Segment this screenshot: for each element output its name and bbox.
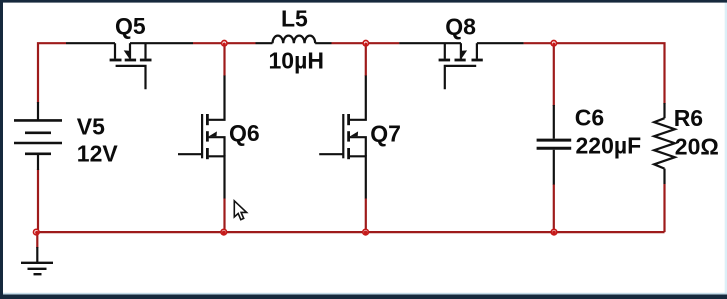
battery V5: [14, 102, 62, 170]
wire: Q8 source to node C: [524, 42, 554, 44]
svg-text:L5: L5: [281, 5, 308, 31]
wire: L5 right lead to node B: [332, 42, 366, 44]
transistor Q8 (horizontal NMOS, mirrored: source+bulk left / drain right): [399, 43, 523, 89]
wire: node A down to Q6 drain: [223, 43, 225, 76]
mouse cursor: [234, 201, 246, 220]
wire: node A to L5 left lead: [224, 42, 255, 44]
node F (C6 bottom junction): [551, 229, 557, 235]
wire: node C across top to R6: [554, 43, 665, 104]
node C (Q8/C6/R6 junction): [551, 41, 556, 46]
wire: V5 positive up and across to Q5 drain: [38, 43, 66, 103]
svg-text:20Ω: 20Ω: [675, 133, 719, 159]
wire: Q5 source to node A: [193, 42, 224, 44]
node G (battery/ground junction): [34, 229, 40, 235]
wire: bottom rail from ground node G to bottom-right corner: [38, 231, 665, 233]
wire: Q7 source down to node E: [365, 198, 367, 232]
svg-text:Q7: Q7: [370, 120, 401, 146]
transistor Q6 (vertical NMOS): [178, 76, 225, 199]
wire: Q6 source down to node D: [223, 198, 225, 232]
transistor Q7 (vertical NMOS): [319, 76, 366, 199]
svg-text:12V: 12V: [77, 141, 119, 167]
svg-text:V5: V5: [77, 113, 105, 139]
wire: C6 bottom down to node F: [553, 184, 555, 232]
wire: node C down to C6 top: [553, 43, 555, 106]
window frame border (decorative): [725, 0, 727, 299]
node B (L5/Q7/Q8 junction): [363, 41, 368, 46]
wire: R6 bottom to bottom-right corner: [663, 184, 665, 232]
wire: V5 negative down to node G: [37, 169, 39, 232]
wire: node G down to ground symbol: [36, 232, 38, 248]
ground: [21, 247, 53, 274]
inductor L5: [256, 36, 332, 44]
wire: node B to Q8 drain: [366, 42, 399, 44]
resistor R6: [654, 103, 675, 184]
svg-text:C6: C6: [575, 105, 604, 131]
svg-text:220µF: 220µF: [576, 132, 642, 158]
node D (Q6 bottom junction): [221, 229, 227, 235]
node E (Q7 bottom junction): [363, 229, 369, 235]
node A (Q5/Q6/L5 junction): [222, 41, 227, 46]
capacitor C6: [537, 105, 572, 185]
svg-text:Q6: Q6: [229, 120, 260, 146]
svg-text:10µH: 10µH: [269, 48, 324, 74]
svg-text:R6: R6: [674, 105, 703, 131]
svg-text:Q8: Q8: [445, 14, 476, 40]
svg-text:Q5: Q5: [115, 13, 146, 39]
transistor Q5 (horizontal NMOS, drain left / source+bulk right): [66, 43, 193, 89]
wire: node B down to Q7 drain: [365, 43, 367, 76]
